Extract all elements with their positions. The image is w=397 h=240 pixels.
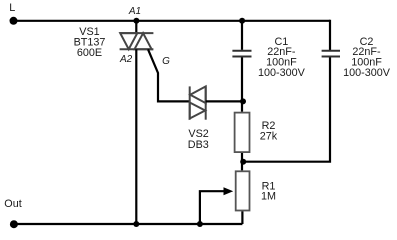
terminal Out (10, 220, 18, 228)
wire diac to node (206, 100, 243, 102)
triac VS1 (120, 33, 154, 49)
wire triac stem bottom (135, 49, 137, 224)
wiper arrowhead (224, 187, 234, 195)
potentiometer R1 (236, 171, 250, 210)
svg-text:G: G (162, 56, 170, 67)
capacitor C1 (232, 51, 251, 57)
node triac bottom junction (133, 221, 139, 227)
svg-text:A1: A1 (128, 6, 141, 17)
wire C1 stem (241, 21, 243, 112)
node A1 (133, 18, 139, 24)
wire C2 branch (243, 20, 330, 162)
svg-text:100-300V: 100-300V (258, 67, 306, 79)
wire gate (148, 49, 190, 101)
svg-text:100-300V: 100-300V (343, 67, 391, 79)
wire triac stem top (135, 21, 137, 33)
wire wiper branch (200, 191, 225, 224)
capacitor C2 (322, 51, 340, 57)
node wiper junction (197, 221, 203, 227)
svg-text:600E: 600E (77, 47, 102, 59)
node diac junction (240, 98, 246, 104)
wire R2 to R1 (241, 153, 243, 170)
svg-text:Out: Out (4, 198, 21, 210)
svg-text:1M: 1M (261, 191, 276, 203)
svg-text:DB3: DB3 (188, 139, 209, 151)
svg-text:A2: A2 (119, 54, 133, 65)
svg-text:L: L (9, 2, 15, 14)
terminal L (10, 17, 18, 25)
svg-text:27k: 27k (260, 131, 278, 143)
wire bottom rail (14, 223, 243, 225)
node C1 top (239, 18, 245, 24)
node R2 bottom junction (240, 159, 246, 165)
wire top rail (14, 20, 331, 22)
resistor R2 (235, 113, 250, 153)
wire R1 bottom lead (241, 211, 243, 224)
diac VS2 (190, 86, 206, 119)
